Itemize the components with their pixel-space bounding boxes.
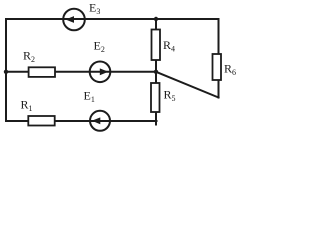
wire middle horizontal bbox=[6, 71, 156, 73]
wire left vertical bbox=[5, 19, 7, 121]
source E3 bbox=[63, 9, 85, 31]
source E1 bbox=[90, 111, 110, 131]
wire right vertical (top lead of R6) bbox=[218, 19, 220, 54]
source E2 bbox=[90, 62, 111, 83]
wire bottom horizontal bbox=[6, 120, 157, 122]
wire bottom lead of R5 bbox=[155, 112, 157, 125]
resistor R2 bbox=[29, 67, 55, 77]
wire diagonal from node to R6 bbox=[156, 72, 219, 98]
resistor R4 bbox=[152, 30, 161, 61]
svg-text:R5: R5 bbox=[164, 88, 176, 104]
svg-text:R1: R1 bbox=[21, 97, 33, 113]
node left (junction of middle wire and left border) bbox=[4, 70, 8, 74]
wire top horizontal bbox=[6, 18, 219, 20]
node top (junction of top wire and R4) bbox=[154, 17, 158, 21]
svg-text:R4: R4 bbox=[163, 38, 175, 54]
wire bottom lead of R4 bbox=[155, 60, 157, 72]
resistor R6 bbox=[213, 54, 222, 80]
svg-text:R2: R2 bbox=[23, 48, 35, 64]
svg-text:R6: R6 bbox=[224, 62, 236, 78]
wire top lead of R4 bbox=[155, 19, 157, 30]
svg-text:E2: E2 bbox=[94, 39, 105, 55]
resistor R1 bbox=[28, 116, 54, 126]
wire top lead of R5 bbox=[155, 72, 157, 83]
svg-text:E1: E1 bbox=[84, 89, 95, 105]
wire bottom lead of R6 bbox=[218, 80, 220, 98]
svg-text:E3: E3 bbox=[89, 1, 100, 17]
resistor R5 bbox=[151, 83, 160, 112]
node middle (junction of middle wire, R4, R5, diagonal) bbox=[154, 70, 158, 74]
